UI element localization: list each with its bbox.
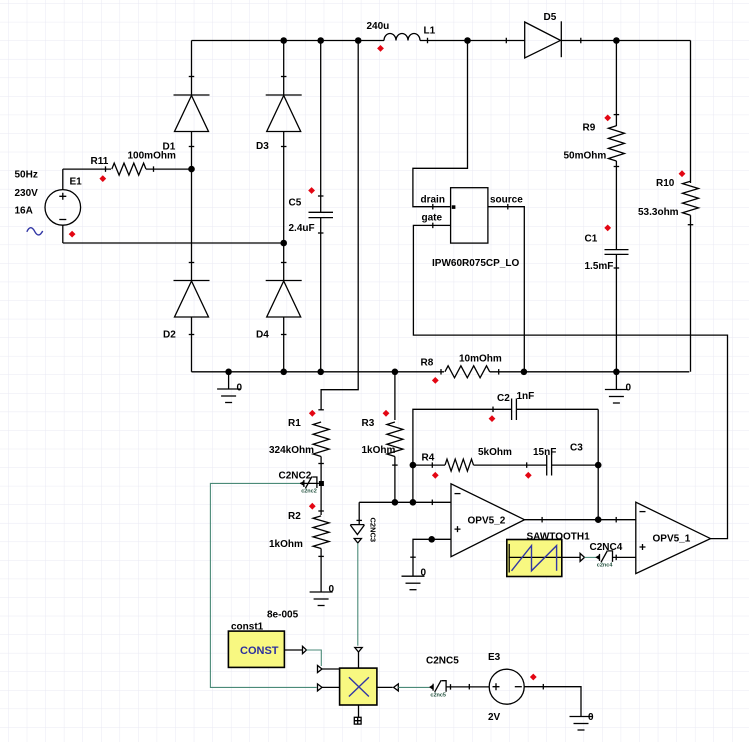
svg-text:R9: R9: [583, 123, 596, 134]
wire drain: [413, 41, 468, 207]
svg-text:0: 0: [421, 568, 427, 579]
svg-text:C3: C3: [570, 443, 583, 454]
svg-text:10mOhm: 10mOhm: [459, 354, 502, 365]
svg-text:OPV5_1: OPV5_1: [653, 534, 691, 545]
svg-text:8e-005: 8e-005: [267, 610, 299, 621]
wire OPV5_2 output: [525, 519, 636, 521]
svg-text:SAWTOOTH1: SAWTOOTH1: [527, 532, 591, 543]
capacitor C3: [546, 455, 548, 476]
wire teal to C2NC5: [398, 686, 429, 688]
wire D5 to output corner: [561, 40, 690, 42]
svg-text:1kOhm: 1kOhm: [269, 539, 303, 550]
ground 0 (bridge): [228, 372, 230, 389]
wire top bus left: [192, 40, 385, 42]
svg-text:C2NC2: C2NC2: [279, 471, 312, 482]
wire ground bus: [192, 371, 445, 373]
node D1/D2 midpoint: [188, 166, 195, 173]
svg-text:D1: D1: [163, 142, 176, 153]
svg-text:324kOhm: 324kOhm: [269, 445, 314, 456]
capacitor C5: [320, 41, 322, 213]
svg-text:240u: 240u: [367, 21, 390, 32]
wire C2NC5 to E3: [446, 686, 489, 688]
diode D2: [191, 169, 193, 280]
wire teal C2NC3 to multiplier: [357, 543, 359, 646]
capacitor C2: [413, 409, 512, 502]
ground 0 (R2): [310, 591, 333, 593]
connector C2NC3: [358, 502, 360, 524]
svg-text:IPW60R075CP_LO: IPW60R075CP_LO: [432, 258, 519, 269]
multiplier right pin: [377, 686, 393, 688]
resistor R9: [615, 41, 617, 127]
wire E3 to ground: [524, 687, 581, 717]
svg-text:R10: R10: [656, 178, 675, 189]
svg-text:R3: R3: [362, 418, 375, 429]
svg-text:R4: R4: [422, 453, 435, 464]
node D3/D4 midpoint: [280, 240, 287, 247]
transistor IPW60R075CP_L0: [451, 188, 488, 243]
capacitor C1: [605, 249, 629, 251]
wire L1 to D5: [420, 40, 525, 42]
resistor R11: [112, 163, 146, 175]
svg-text:C2NC3: C2NC3: [369, 518, 378, 543]
wire output ground bus: [616, 371, 689, 373]
diode D4: [283, 243, 285, 281]
svg-text:1kOhm: 1kOhm: [362, 445, 396, 456]
svg-text:50mOhm: 50mOhm: [564, 151, 607, 162]
svg-text:D5: D5: [544, 12, 557, 23]
svg-text:0: 0: [329, 584, 335, 595]
svg-text:gate: gate: [422, 213, 443, 224]
ground 0 (OPV5_2): [402, 575, 425, 577]
wire sawtooth output: [562, 556, 580, 558]
connector C2NC5: [429, 685, 433, 690]
svg-text:E3: E3: [488, 652, 501, 663]
node R1/R2 tap: [319, 481, 324, 486]
svg-text:230V: 230V: [15, 188, 39, 199]
source E1: [45, 190, 81, 226]
svg-text:D4: D4: [256, 330, 269, 341]
svg-text:D2: D2: [163, 330, 176, 341]
multiplier block: [340, 668, 377, 705]
connector C2NC4: [595, 555, 599, 560]
wire feedback right leg: [597, 409, 599, 519]
resistor R10: [690, 41, 692, 184]
svg-text:R1: R1: [288, 418, 301, 429]
op-amp OPV5_1: [636, 502, 711, 573]
svg-text:C5: C5: [289, 198, 302, 209]
svg-text:0: 0: [588, 712, 594, 723]
svg-text:CONST: CONST: [240, 645, 279, 657]
resistor R3: [394, 372, 396, 420]
svg-text:0: 0: [626, 383, 632, 394]
wire sense tap: [321, 41, 358, 410]
svg-text:C2NC5: C2NC5: [426, 656, 459, 667]
wire teal C2NC2 to multiplier: [210, 483, 316, 687]
source SAWTOOTH1: [507, 540, 562, 577]
const1 CONST block: [228, 631, 284, 667]
ground 0 (E3): [570, 716, 593, 718]
svg-text:R8: R8: [421, 358, 434, 369]
svg-text:15nF: 15nF: [533, 447, 556, 458]
wire to OPV5_1 plus: [613, 556, 636, 558]
resistor R2: [320, 486, 322, 515]
resistor R8: [445, 366, 490, 378]
svg-text:E1: E1: [70, 177, 83, 188]
svg-text:C1: C1: [585, 234, 598, 245]
svg-text:OPV5_2: OPV5_2: [468, 516, 506, 527]
svg-text:R2: R2: [288, 511, 301, 522]
AC sine symbol: [27, 228, 43, 235]
svg-text:drain: drain: [421, 195, 445, 206]
svg-text:source: source: [490, 195, 523, 206]
svg-text:C2: C2: [497, 393, 510, 404]
wire E1 bottom to bridge: [63, 242, 284, 244]
svg-text:50Hz: 50Hz: [15, 170, 38, 181]
op-amp OPV5_2: [451, 484, 525, 557]
wire OPV5_2 plus input to ground: [413, 539, 451, 576]
svg-text:0: 0: [237, 383, 243, 394]
diode D5: [525, 22, 561, 58]
diode D3: [283, 41, 285, 96]
svg-text:1.5mF: 1.5mF: [585, 261, 614, 272]
svg-text:2.4uF: 2.4uF: [289, 223, 315, 234]
svg-text:16A: 16A: [15, 206, 33, 217]
svg-text:1nF: 1nF: [517, 391, 535, 402]
svg-text:53.3ohm: 53.3ohm: [638, 207, 679, 218]
ground 0 (output): [615, 372, 617, 390]
resistor R4: [413, 464, 445, 466]
wire source: [488, 207, 524, 372]
wire CONST output: [284, 649, 302, 651]
multiplier output pin to termination: [358, 705, 360, 717]
multiplier input pins: [322, 668, 340, 670]
svg-text:L1: L1: [424, 26, 436, 37]
connector C2NC2: [300, 482, 319, 484]
svg-text:2V: 2V: [488, 712, 501, 723]
svg-text:R11: R11: [91, 156, 109, 167]
svg-text:const1: const1: [231, 622, 264, 633]
inductor L1: [384, 34, 420, 41]
wire E1 top to R11: [63, 168, 111, 170]
svg-text:C2NC4: C2NC4: [590, 542, 623, 553]
node top bus junctions: [280, 37, 287, 44]
svg-text:c2nc2: c2nc2: [301, 489, 317, 495]
wire gate drive: [413, 225, 727, 538]
svg-text:D3: D3: [256, 141, 269, 152]
resistor R1: [318, 409, 324, 411]
svg-text:c2nc4: c2nc4: [597, 563, 614, 569]
svg-text:c2nc5: c2nc5: [430, 692, 446, 698]
wire OPV5_2 minus input: [359, 501, 451, 503]
diode D1: [191, 41, 193, 96]
svg-text:5kOhm: 5kOhm: [478, 447, 512, 458]
node L1 probe: [377, 45, 384, 52]
source E3: [489, 669, 524, 704]
